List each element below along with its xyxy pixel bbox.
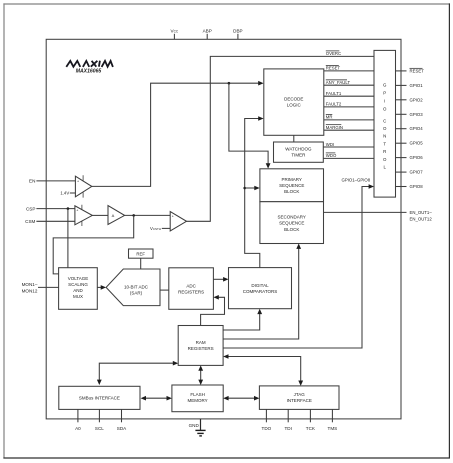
wire comparators to primary sequence block: [245, 186, 260, 191]
svg-text:MEMORY: MEMORY: [188, 398, 208, 403]
svg-text:DBP: DBP: [233, 29, 242, 34]
svg-text:GPIO1–GPIO8: GPIO1–GPIO8: [342, 177, 371, 182]
pin SDA: [117, 409, 127, 430]
wire RESET decode to GPIO: [324, 66, 374, 71]
svg-text:REF: REF: [136, 251, 145, 256]
SMBus interface: [59, 386, 140, 409]
pin CSM: [25, 219, 75, 224]
svg-text:+: +: [76, 209, 78, 213]
svg-text:SDA: SDA: [117, 426, 127, 431]
svg-text:WDI: WDI: [326, 142, 334, 147]
svg-text:TDO: TDO: [262, 426, 272, 431]
svg-text:FLASH: FLASH: [190, 392, 205, 397]
wire WDO watchdog to GPIO: [323, 153, 374, 159]
svg-text:FAULT2: FAULT2: [326, 102, 342, 107]
svg-text:SECONDARY: SECONDARY: [277, 214, 305, 219]
pin GPIO5: [396, 141, 424, 146]
svg-text:MON12: MON12: [22, 289, 38, 294]
svg-text:DIGITAL: DIGITAL: [251, 283, 269, 288]
svg-text:VCSTH: VCSTH: [150, 226, 161, 231]
svg-text:(SAR): (SAR): [130, 290, 143, 295]
pin EN: [29, 179, 75, 184]
svg-text:TDI: TDI: [284, 426, 291, 431]
amp A: [108, 206, 125, 225]
wire EN_OUT secondary sequence to pins: [324, 210, 433, 221]
svg-text:OVERC: OVERC: [326, 51, 341, 56]
pin GPIO6: [396, 155, 424, 160]
svg-text:WATCHDOG: WATCHDOG: [285, 147, 312, 152]
wire REF to ADC: [140, 258, 142, 269]
svg-text:PRIMARY: PRIMARY: [281, 177, 301, 182]
svg-text:10-BIT ADC: 10-BIT ADC: [124, 284, 149, 289]
pin RESET output: [396, 68, 425, 73]
svg-text:MON1–: MON1–: [22, 282, 38, 287]
node junction comparator-to-sequencer: [243, 187, 246, 190]
svg-text:EN: EN: [29, 179, 35, 184]
svg-text:GPIO5: GPIO5: [410, 141, 424, 146]
wire RAM registers to GPIO control (GPIO1-GPIO8): [223, 177, 374, 348]
svg-text:GPIO4: GPIO4: [410, 126, 424, 131]
svg-text:VOLTAGE: VOLTAGE: [68, 276, 89, 281]
wire RAM registers to JTAG interface: [223, 354, 303, 386]
svg-text:TMS: TMS: [328, 426, 338, 431]
svg-text:O: O: [383, 107, 387, 112]
wire RAM registers to secondary sequence block: [223, 244, 301, 340]
svg-text:REGISTERS: REGISTERS: [178, 289, 204, 294]
comparator EN (1.4V): [75, 175, 91, 197]
svg-text:SMBus INTERFACE: SMBus INTERFACE: [79, 396, 120, 401]
svg-text:REGISTERS: REGISTERS: [188, 346, 214, 351]
svg-text:DECODE: DECODE: [284, 97, 303, 102]
svg-text:SEQUENCE: SEQUENCE: [279, 221, 304, 226]
ADC registers: [169, 268, 214, 310]
svg-text:TIMER: TIMER: [291, 153, 306, 158]
svg-text:1.4V: 1.4V: [60, 191, 69, 196]
svg-text:ABP: ABP: [203, 29, 212, 34]
pin VCC: [171, 29, 179, 40]
wire FAULT2 decode to GPIO: [324, 102, 374, 107]
svg-text:T: T: [383, 141, 386, 146]
wire ADC registers to digital comparators: [213, 277, 228, 282]
svg-text:SCALING: SCALING: [68, 282, 88, 287]
svg-text:EN_OUT1–: EN_OUT1–: [410, 210, 433, 215]
comparator overcurrent: [170, 212, 186, 232]
primary sequence block: [260, 169, 324, 202]
svg-text:GPIO3: GPIO3: [410, 112, 424, 117]
svg-text:RESET: RESET: [326, 66, 341, 71]
svg-text:ANY_FAULT: ANY_FAULT: [326, 80, 351, 85]
pin GPIO2: [396, 97, 424, 102]
net label OVERC: [326, 51, 341, 56]
svg-text:TCK: TCK: [306, 426, 316, 431]
svg-text:GPIO1: GPIO1: [410, 83, 424, 88]
ADC 10-bit SAR: [106, 269, 160, 306]
RAM registers: [178, 326, 223, 366]
svg-text:O: O: [383, 126, 387, 131]
pin DBP: [233, 29, 242, 40]
svg-text:GPIO2: GPIO2: [410, 97, 424, 102]
node junction on CSP wire: [67, 207, 70, 210]
wire RAM registers to ADC registers: [201, 295, 225, 326]
secondary sequence block: [260, 202, 324, 244]
pin GPIO1: [396, 83, 424, 88]
svg-text:VCC: VCC: [171, 29, 179, 34]
flash memory: [172, 385, 223, 412]
wire MR GPIO to decode: [324, 114, 374, 120]
pin GPIO8: [396, 184, 424, 189]
GPIO control block: [374, 50, 396, 197]
digital comparators: [229, 268, 292, 309]
svg-text:MR: MR: [326, 115, 333, 120]
svg-text:JTAG: JTAG: [294, 392, 306, 397]
wire mux to ADC: [97, 285, 106, 290]
svg-text:A: A: [112, 213, 115, 218]
wire enable branch to primary sequence block: [229, 83, 271, 168]
JTAG interface: [259, 386, 339, 410]
svg-text:EN_OUT12: EN_OUT12: [410, 216, 433, 221]
wire amp A output to overcurrent comparator: [125, 214, 171, 216]
wire EN comparator output to decode logic: [92, 81, 264, 186]
pin CSP: [26, 206, 75, 211]
pin ABP: [203, 29, 212, 40]
pin SCL: [95, 409, 104, 430]
voltage scaling and mux: [59, 268, 98, 310]
REF reference: [129, 249, 154, 258]
svg-text:GPIO7: GPIO7: [410, 170, 424, 175]
svg-text:N: N: [383, 134, 386, 139]
svg-text:MAX16065: MAX16065: [76, 68, 102, 74]
svg-text:GPIO6: GPIO6: [410, 155, 424, 160]
svg-text:G: G: [383, 83, 387, 88]
svg-text:MUX: MUX: [73, 294, 83, 299]
svg-text:SCL: SCL: [95, 426, 104, 431]
decode logic U1: [264, 69, 324, 135]
svg-text:P: P: [383, 91, 386, 96]
svg-text:LOGIC: LOGIC: [287, 102, 302, 107]
wire digital comparators to decode logic: [245, 116, 264, 267]
wire ANY_FAULT decode to GPIO: [324, 80, 374, 85]
wire current-sense to amp A: [92, 214, 108, 216]
node junction on amp output: [132, 214, 135, 217]
pin GPIO4: [396, 126, 424, 131]
wire RAM registers to flash memory: [198, 365, 203, 385]
ground symbol: [195, 430, 205, 436]
wire SMBus to flash memory: [141, 396, 172, 401]
watchdog timer: [274, 142, 324, 162]
svg-text:I: I: [384, 99, 385, 104]
wire decode to watchdog timer: [293, 135, 295, 142]
svg-text:R: R: [383, 149, 386, 154]
svg-text:FAULT1: FAULT1: [326, 91, 342, 96]
svg-text:WDO: WDO: [326, 153, 337, 158]
svg-text:+: +: [77, 179, 79, 183]
wire FAULT1 decode to GPIO: [324, 91, 374, 96]
node junction on enable wire: [228, 82, 231, 85]
svg-text:A0: A0: [75, 426, 81, 431]
pin GPIO7: [396, 170, 424, 175]
comparator current-sense: [75, 205, 92, 226]
svg-text:CSP: CSP: [26, 206, 35, 211]
wire ADC to ADC registers: [160, 289, 169, 291]
svg-text:SEQUENCE: SEQUENCE: [279, 183, 304, 188]
svg-text:+: +: [172, 215, 174, 219]
svg-text:BLOCK: BLOCK: [284, 227, 299, 232]
svg-text:GND: GND: [189, 423, 200, 428]
Maxim logo: [66, 61, 113, 67]
wire WDI GPIO to watchdog: [323, 142, 374, 147]
pin GPIO3: [396, 112, 424, 117]
svg-text:CSM: CSM: [25, 219, 35, 224]
chip outline MAX16065: [46, 39, 401, 419]
svg-text:COMPARATORS: COMPARATORS: [243, 289, 278, 294]
pin GND: [189, 419, 201, 430]
svg-text:AND: AND: [73, 288, 83, 293]
wire SMBus interface to RAM registers: [97, 361, 178, 385]
svg-text:ADC: ADC: [186, 283, 196, 288]
pin MON1-MON12: [22, 282, 59, 293]
wire OVERC to GPIO control: [187, 56, 375, 221]
1.4V reference label: [60, 191, 75, 196]
pin TDI: [284, 409, 291, 430]
VCSTH threshold label: [150, 226, 170, 231]
svg-text:O: O: [383, 157, 387, 162]
svg-text:GPIO8: GPIO8: [410, 184, 424, 189]
wire RAM registers to digital comparators: [223, 309, 262, 330]
svg-text:C: C: [383, 118, 386, 123]
svg-text:INTERFACE: INTERFACE: [287, 398, 312, 403]
wire flash memory to JTAG: [223, 396, 259, 401]
svg-text:RAM: RAM: [196, 340, 206, 345]
svg-text:BLOCK: BLOCK: [284, 189, 299, 194]
pin TCK: [306, 409, 316, 430]
pin TDO: [262, 409, 272, 430]
pin A0: [75, 409, 81, 430]
wire MARGIN GPIO to decode: [324, 125, 374, 131]
svg-text:MARGIN: MARGIN: [326, 125, 343, 130]
svg-text:RESET: RESET: [410, 68, 425, 73]
wire amp output branch to voltage scaling mux: [53, 215, 134, 274]
pin TMS: [328, 409, 338, 430]
wire CSP branch to voltage scaling mux: [67, 209, 69, 268]
